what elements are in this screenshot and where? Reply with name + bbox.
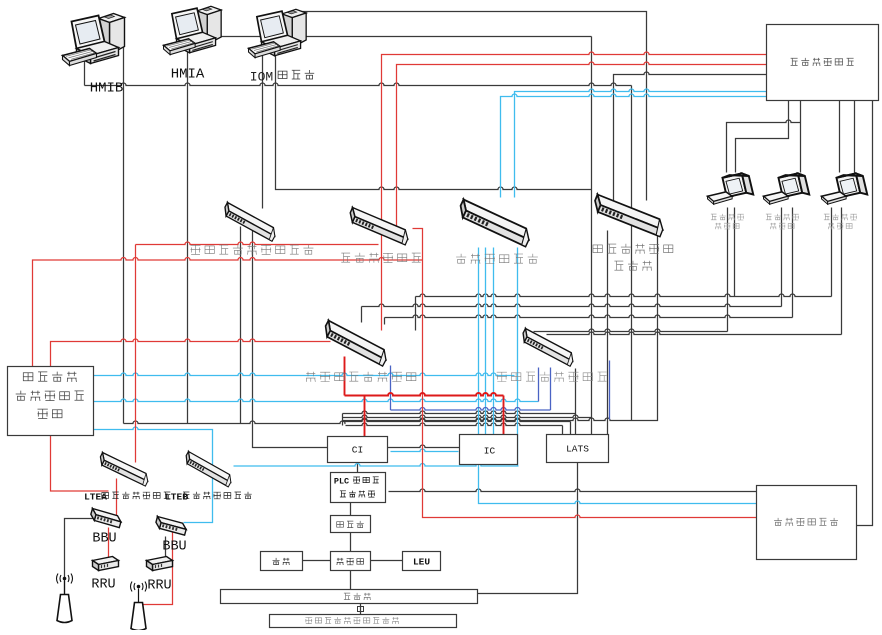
svg-text:BBU: BBU bbox=[92, 532, 116, 547]
svg-text:PLC: PLC bbox=[334, 477, 349, 487]
svg-text:HMIB: HMIB bbox=[90, 81, 124, 97]
svg-text:RRU: RRU bbox=[147, 579, 171, 594]
svg-text:LTEA: LTEA bbox=[84, 492, 107, 503]
svg-text:HMIA: HMIA bbox=[171, 67, 205, 83]
svg-text:IOM: IOM bbox=[250, 70, 273, 85]
svg-text:LEU: LEU bbox=[413, 557, 430, 568]
svg-text:CI: CI bbox=[352, 445, 363, 456]
svg-text:LATS: LATS bbox=[566, 444, 589, 455]
svg-text:RRU: RRU bbox=[91, 578, 115, 593]
svg-text:IC: IC bbox=[484, 446, 496, 457]
svg-text:BBU: BBU bbox=[162, 540, 186, 555]
